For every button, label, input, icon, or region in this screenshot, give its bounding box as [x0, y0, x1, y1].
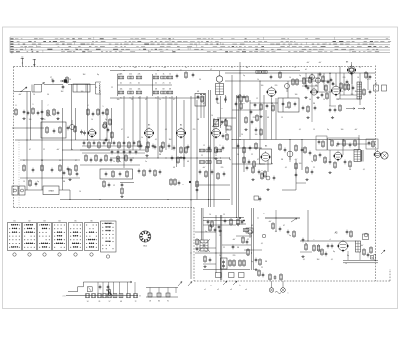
- svg-text:47: 47: [57, 119, 59, 121]
- svg-text:68: 68: [285, 107, 287, 109]
- component row A1: [15, 107, 60, 117]
- svg-text:4n7: 4n7: [319, 62, 322, 64]
- cluster F13: [207, 220, 214, 228]
- svg-text:5p: 5p: [311, 161, 313, 163]
- svg-text:4: 4: [88, 105, 89, 107]
- svg-text:100: 100: [247, 255, 250, 257]
- svg-text:5p: 5p: [371, 257, 373, 259]
- svg-text:47: 47: [29, 149, 31, 151]
- cluster E9: [246, 166, 267, 181]
- svg-text:220: 220: [253, 117, 256, 119]
- svg-text:100: 100: [81, 91, 84, 93]
- svg-text:2n: 2n: [219, 255, 221, 257]
- labels D: [305, 62, 370, 86]
- svg-text:68: 68: [267, 117, 269, 119]
- svg-text:0,1: 0,1: [285, 167, 287, 169]
- svg-text:47: 47: [367, 79, 369, 81]
- cluster C11: [255, 128, 263, 136]
- svg-text:68: 68: [251, 225, 253, 227]
- svg-text:22: 22: [43, 149, 45, 151]
- svg-text:2n: 2n: [169, 82, 171, 84]
- svg-text:15: 15: [223, 214, 225, 216]
- volume box: [100, 169, 133, 179]
- svg-text:3k3: 3k3: [83, 74, 86, 76]
- cluster E6: [279, 143, 304, 152]
- svg-text:68: 68: [155, 88, 157, 90]
- cluster E13: [199, 170, 226, 180]
- svg-text:56: 56: [99, 161, 101, 163]
- svg-text:5p: 5p: [299, 75, 301, 77]
- component block M2: [85, 154, 133, 163]
- svg-text:10: 10: [357, 77, 359, 79]
- circle F15: [262, 234, 266, 238]
- svg-text:220: 220: [275, 85, 278, 87]
- svg-text:8p: 8p: [333, 251, 335, 253]
- svg-text:22: 22: [280, 67, 282, 69]
- svg-text:100: 100: [261, 85, 264, 87]
- svg-text:2n: 2n: [145, 161, 147, 163]
- svg-text:22: 22: [247, 239, 249, 241]
- trim parts C4: [220, 119, 227, 127]
- chassis border top: [14, 66, 374, 68]
- svg-text:2n: 2n: [185, 67, 187, 69]
- svg-text:15: 15: [281, 117, 283, 119]
- labels F: [204, 213, 264, 291]
- wire: [330, 135, 376, 160]
- power trafo T4: [198, 239, 210, 252]
- svg-text:4n7: 4n7: [295, 159, 298, 161]
- svg-text:s4: s4: [245, 289, 247, 291]
- boxed cap F5: [221, 258, 228, 269]
- cluster under V5: [208, 146, 225, 160]
- svg-text:o: o: [183, 184, 184, 186]
- coil circle A3: [70, 120, 107, 130]
- component col D0: [303, 75, 333, 90]
- capacitor D2: [352, 86, 355, 91]
- svg-text:GRAM: GRAM: [48, 190, 54, 193]
- svg-text:220: 220: [221, 167, 224, 169]
- parts B right: [176, 70, 195, 80]
- svg-text:1k: 1k: [159, 99, 161, 101]
- svg-text:4n7: 4n7: [164, 67, 167, 69]
- svg-text:15: 15: [294, 67, 296, 69]
- cluster E5: [237, 142, 258, 154]
- shield box E0: [316, 136, 327, 150]
- svg-text:21: 21: [23, 160, 25, 162]
- wire: [300, 251, 360, 260]
- pilot lamp P1: [269, 281, 274, 292]
- svg-text:8p: 8p: [97, 74, 99, 76]
- svg-text:10: 10: [33, 94, 35, 96]
- svg-text:1k: 1k: [341, 91, 343, 93]
- switch arrows F12: [178, 281, 237, 286]
- value labels: [19, 62, 373, 269]
- svg-text:B6: B6: [90, 221, 92, 223]
- blob M7: [189, 180, 198, 192]
- coupling K1: [60, 79, 67, 82]
- small box C5: [226, 126, 231, 130]
- wires C12: [232, 81, 288, 140]
- svg-text:68: 68: [187, 161, 189, 163]
- svg-text:B4: B4: [58, 221, 60, 223]
- svg-text:5: 5: [103, 106, 104, 108]
- grounds row A1: [22, 117, 59, 120]
- tuning cap C3: [212, 119, 219, 127]
- svg-text:s1: s1: [204, 289, 206, 291]
- svg-text:14: 14: [87, 301, 89, 303]
- parts D10: [305, 72, 372, 96]
- svg-text:220: 220: [193, 129, 196, 131]
- svg-text:BU5: BU5: [143, 246, 147, 248]
- component block A6: [104, 118, 114, 142]
- svg-text:10: 10: [79, 191, 81, 193]
- svg-text:1k: 1k: [141, 137, 143, 139]
- component F11: [287, 230, 296, 238]
- arrow G9: [381, 250, 385, 254]
- tube V5: [211, 127, 221, 139]
- svg-text:0,1: 0,1: [155, 139, 157, 141]
- label L7: [210, 69, 212, 71]
- box G4: [363, 233, 369, 239]
- svg-text:68: 68: [173, 167, 175, 169]
- component block M1: [83, 140, 141, 149]
- svg-text:4n7: 4n7: [307, 62, 310, 64]
- svg-text:5p: 5p: [37, 181, 39, 183]
- svg-text:d: d: [330, 239, 331, 241]
- box F14: [246, 228, 253, 233]
- svg-text:22: 22: [313, 167, 315, 169]
- svg-text:m5: m5: [260, 66, 262, 68]
- svg-text:3k3: 3k3: [169, 139, 172, 141]
- parts value table: [10, 37, 391, 53]
- svg-text:1k: 1k: [113, 161, 115, 163]
- svg-text:B4: B4: [180, 125, 182, 127]
- svg-text:15: 15: [131, 99, 133, 101]
- capacitor C1: [50, 77, 54, 83]
- osc box: [41, 122, 66, 138]
- component cluster B6: [171, 156, 186, 164]
- labels G: [314, 239, 331, 241]
- svg-text:b: b: [12, 53, 13, 55]
- pickup box: [43, 186, 59, 195]
- svg-text:1k: 1k: [169, 73, 171, 75]
- wire mid: [118, 84, 173, 86]
- cluster M6: [170, 178, 184, 186]
- parts above border F15: [269, 273, 283, 281]
- svg-text:68: 68: [163, 88, 165, 90]
- svg-text:68: 68: [127, 137, 129, 139]
- svg-text:o: o: [244, 103, 245, 105]
- svg-text:3k3: 3k3: [317, 259, 320, 261]
- svg-text:22: 22: [231, 67, 233, 69]
- svg-text:10: 10: [69, 79, 71, 81]
- svg-text:10: 10: [323, 99, 325, 101]
- label A5: [335, 232, 339, 235]
- svg-text:0,1: 0,1: [261, 243, 263, 245]
- svg-text:220: 220: [351, 94, 354, 96]
- cluster E15: [243, 156, 256, 168]
- wire: [20, 159, 80, 161]
- tube V9: [347, 62, 356, 75]
- component cluster C8: [254, 103, 275, 118]
- chassis border corner hook: [389, 269, 391, 281]
- svg-text:8: 8: [16, 105, 17, 107]
- svg-text:10k: 10k: [129, 88, 132, 90]
- wire verticals: [27, 62, 360, 280]
- svg-text:4n7: 4n7: [269, 221, 272, 223]
- component cluster A8: [63, 168, 79, 181]
- parts C13: [235, 102, 259, 122]
- cluster C6: [222, 133, 229, 141]
- shield box E2: [366, 139, 378, 149]
- cluster F1: [214, 228, 249, 234]
- svg-text:3k3: 3k3: [355, 91, 358, 93]
- svg-text:B3: B3: [148, 125, 150, 127]
- wire horizontals: [12, 71, 378, 270]
- chassis border bottom-left: [14, 207, 195, 209]
- svg-text:a: a: [222, 108, 223, 110]
- svg-text:a: a: [211, 285, 212, 287]
- svg-text:22: 22: [201, 155, 203, 157]
- tube V3: [144, 127, 154, 139]
- trafo G3: [356, 241, 361, 252]
- svg-text:100: 100: [299, 163, 302, 165]
- cluster F9: [258, 269, 265, 277]
- antenna A2: [12, 53, 36, 67]
- svg-text:68: 68: [197, 91, 199, 93]
- AC wave symbol: [275, 291, 289, 294]
- component C2: [270, 71, 282, 79]
- cluster F4: [203, 255, 211, 268]
- pilot lamp P2: [281, 281, 286, 292]
- svg-text:1k: 1k: [325, 161, 327, 163]
- resistor row R1b: [153, 73, 173, 96]
- cluster under V3: [140, 144, 163, 157]
- svg-text:10: 10: [91, 119, 93, 121]
- svg-text:B7: B7: [336, 146, 338, 148]
- cluster G10: [321, 248, 328, 256]
- svg-text:100: 100: [255, 134, 258, 136]
- resistor pair Ctop: [256, 66, 267, 73]
- svg-text:o: o: [262, 170, 263, 172]
- parts M9: [147, 141, 171, 149]
- cap pair G2: [327, 244, 334, 249]
- svg-text:57: 57: [109, 301, 111, 303]
- cluster G7: [301, 238, 307, 258]
- svg-text:5p: 5p: [243, 75, 245, 77]
- IF can T1: [216, 71, 224, 95]
- svg-text:81: 81: [99, 301, 101, 303]
- tube V14: [374, 150, 381, 158]
- svg-text:5p: 5p: [289, 235, 291, 237]
- arrow D8: [346, 108, 365, 110]
- svg-text:18: 18: [149, 301, 151, 303]
- component F10: [272, 210, 282, 232]
- svg-text:e: e: [264, 213, 265, 215]
- svg-text:9: 9: [220, 145, 221, 147]
- svg-text:10k: 10k: [120, 88, 123, 90]
- svg-text:15: 15: [337, 99, 339, 101]
- svg-text:100: 100: [29, 119, 32, 121]
- resistor row E11: [199, 149, 221, 152]
- svg-text:1k: 1k: [257, 79, 259, 81]
- svg-text:47: 47: [283, 225, 285, 227]
- svg-text:8p: 8p: [271, 163, 273, 165]
- parts A10: [62, 76, 69, 89]
- svg-text:5p: 5p: [107, 129, 109, 131]
- component cluster M3: [138, 169, 162, 177]
- labels C: [222, 98, 258, 110]
- svg-text:B6: B6: [265, 146, 267, 148]
- cluster E17: [261, 172, 276, 191]
- svg-text:12: 12: [256, 98, 258, 100]
- svg-text:B3: B3: [43, 221, 45, 223]
- component D7: [339, 104, 342, 112]
- wires D h: [302, 78, 360, 99]
- valve socket panel 6: [85, 221, 99, 257]
- svg-text:22: 22: [261, 267, 263, 269]
- triodes D1: [310, 75, 321, 84]
- svg-text:68: 68: [315, 85, 317, 87]
- svg-text:s2: s2: [217, 289, 219, 291]
- svg-text:4n7: 4n7: [233, 239, 236, 241]
- svg-text:22: 22: [223, 247, 225, 249]
- sub-circuit 2: [139, 288, 178, 303]
- svg-text:0,1: 0,1: [165, 129, 167, 131]
- valve socket panel 4: [53, 221, 67, 257]
- labels B: [148, 125, 217, 127]
- rectifier cluster F0: [236, 217, 246, 226]
- svg-text:56: 56: [51, 79, 53, 81]
- component cluster A9: [29, 179, 38, 187]
- svg-text:4n7: 4n7: [19, 94, 22, 96]
- cluster E7: [304, 146, 327, 164]
- cluster D9: [365, 71, 372, 79]
- parts F3: [196, 238, 199, 251]
- box D3: [374, 82, 379, 91]
- component M4: [120, 183, 123, 198]
- chassis border left: [13, 67, 15, 208]
- svg-text:3k3: 3k3: [61, 91, 64, 93]
- cluster under V4: [173, 145, 190, 159]
- resistor pair D: [344, 83, 350, 91]
- svg-text:17: 17: [50, 77, 52, 79]
- svg-text:100: 100: [295, 94, 298, 96]
- svg-text:15: 15: [313, 129, 315, 131]
- svg-text:68: 68: [120, 301, 122, 303]
- svg-text:22: 22: [111, 87, 113, 89]
- sub1 frame: [63, 281, 132, 297]
- det box: [260, 149, 272, 164]
- parts M5: [103, 180, 115, 188]
- svg-text:10: 10: [211, 115, 213, 117]
- svg-text:5p: 5p: [251, 261, 253, 263]
- svg-text:47: 47: [173, 99, 175, 101]
- cap pair A5: [80, 130, 86, 136]
- svg-text:56: 56: [47, 94, 49, 96]
- fuse boxes F8: [216, 273, 245, 278]
- svg-text:8p: 8p: [347, 255, 349, 257]
- small tube F2: [248, 230, 252, 238]
- tube V10: [310, 87, 318, 95]
- svg-text:10: 10: [289, 77, 291, 79]
- wire: [265, 218, 300, 222]
- triode V8: [285, 84, 290, 93]
- antenna A1: [21, 57, 24, 67]
- power parts2: [209, 218, 250, 256]
- svg-text:4n: 4n: [138, 82, 140, 84]
- svg-text:B2: B2: [28, 221, 30, 223]
- svg-text:91: 91: [167, 301, 169, 303]
- chassis border bottom: [194, 280, 390, 282]
- cluster E16: [295, 162, 306, 183]
- svg-text:2n: 2n: [205, 251, 207, 253]
- wire: [82, 146, 145, 153]
- res pair F6: [229, 259, 236, 267]
- resistor row E12: [199, 161, 221, 164]
- svg-text:220: 220: [43, 119, 46, 121]
- svg-text:2n: 2n: [163, 82, 165, 84]
- svg-text:68: 68: [149, 67, 151, 69]
- svg-text:B5: B5: [74, 221, 76, 223]
- component row A2: [87, 108, 109, 116]
- svg-text:100: 100: [134, 67, 137, 69]
- osc coil box: [195, 94, 206, 107]
- svg-text:86: 86: [158, 301, 160, 303]
- shield box C9: [278, 98, 299, 112]
- chassis border right: [375, 66, 377, 282]
- component row A7: [23, 164, 78, 172]
- svg-text:b1: b1: [305, 69, 307, 71]
- svg-text:5n: 5n: [120, 97, 122, 99]
- svg-text:3k3: 3k3: [227, 129, 230, 131]
- labels E: [262, 146, 339, 173]
- svg-text:10k: 10k: [138, 88, 141, 90]
- resistor row R1a: [118, 73, 142, 96]
- tube V13: [334, 151, 343, 162]
- svg-text:0,1: 0,1: [275, 231, 277, 233]
- socket bottom view BU5: [140, 231, 151, 248]
- svg-text:0,1: 0,1: [303, 259, 305, 261]
- svg-text:25: 25: [59, 160, 61, 162]
- svg-text:8p: 8p: [327, 129, 329, 131]
- svg-text:4n7: 4n7: [355, 129, 358, 131]
- svg-text:1k: 1k: [95, 87, 97, 89]
- svg-text:1n: 1n: [155, 97, 157, 99]
- tube V4: [176, 127, 186, 139]
- output trafo T3: [354, 150, 363, 162]
- svg-text:5n: 5n: [138, 97, 140, 99]
- svg-text:15: 15: [215, 155, 217, 157]
- svg-text:2n: 2n: [155, 82, 157, 84]
- tube V15: [338, 240, 349, 252]
- svg-text:B8: B8: [346, 62, 348, 64]
- svg-text:0,1: 0,1: [363, 169, 365, 171]
- svg-text:n: n: [288, 293, 289, 295]
- cluster D5: [302, 105, 317, 119]
- svg-text:1n: 1n: [163, 97, 165, 99]
- cluster C10: [244, 116, 253, 131]
- wire: [20, 177, 80, 179]
- svg-text:1k: 1k: [155, 73, 157, 75]
- svg-text:9: 9: [33, 104, 34, 106]
- svg-text:22: 22: [251, 154, 253, 156]
- svg-text:56: 56: [237, 154, 239, 156]
- svg-text:22k: 22k: [129, 73, 132, 75]
- svg-text:L7: L7: [210, 69, 212, 71]
- labels E14: [203, 145, 220, 147]
- coil L1: [96, 82, 102, 94]
